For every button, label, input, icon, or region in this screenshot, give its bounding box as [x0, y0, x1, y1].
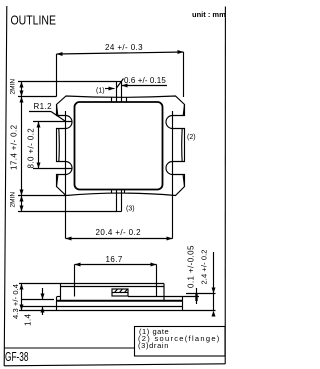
- svg-text:1.4: 1.4: [24, 314, 33, 326]
- svg-text:unit : mm: unit : mm: [192, 10, 226, 19]
- svg-text:24 +/- 0.3: 24 +/- 0.3: [105, 43, 143, 52]
- svg-text:17.4 +/- 0.2: 17.4 +/- 0.2: [10, 124, 19, 170]
- svg-text:(1): (1): [96, 88, 105, 95]
- svg-text:R1.2: R1.2: [34, 102, 53, 111]
- svg-text:(2): (2): [187, 134, 196, 141]
- svg-text:4.3 +/- 0.4: 4.3 +/- 0.4: [11, 284, 20, 319]
- svg-text:0.1 +/-0.05: 0.1 +/-0.05: [187, 245, 196, 288]
- svg-text:GF-38: GF-38: [5, 350, 29, 364]
- svg-text:OUTLINE: OUTLINE: [11, 13, 57, 28]
- svg-text:16.7: 16.7: [106, 255, 123, 264]
- svg-text:(3): (3): [126, 206, 135, 213]
- svg-text:(3)drain: (3)drain: [138, 341, 169, 350]
- svg-text:2MIN: 2MIN: [10, 192, 17, 208]
- svg-text:0.6 +/- 0.15: 0.6 +/- 0.15: [124, 76, 166, 85]
- svg-text:2MIN: 2MIN: [10, 79, 17, 95]
- svg-text:20.4 +/- 0.2: 20.4 +/- 0.2: [96, 228, 142, 237]
- svg-text:8.0 +/- 0.2: 8.0 +/- 0.2: [27, 128, 36, 169]
- svg-text:2.4 +/- 0.2: 2.4 +/- 0.2: [200, 249, 209, 284]
